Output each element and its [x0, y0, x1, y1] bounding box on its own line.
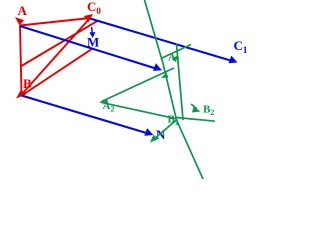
- svg-text:M: M: [87, 35, 99, 50]
- svg-text:A: A: [18, 3, 28, 18]
- svg-text:B: B: [23, 76, 32, 91]
